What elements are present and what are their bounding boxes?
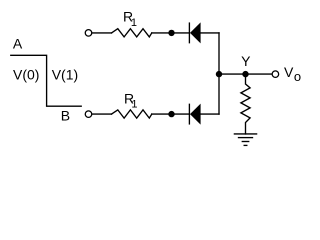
wire bottom resistor to diode	[152, 113, 190, 115]
svg-text:o: o	[294, 69, 301, 84]
svg-text:V(0): V(0)	[13, 67, 39, 83]
wire top diode to bus	[201, 32, 219, 34]
diode D2 cathode bar	[188, 104, 190, 124]
wire bottom input to resistor	[92, 113, 111, 115]
svg-text:1: 1	[131, 17, 137, 29]
wire bus vertical	[218, 33, 220, 114]
terminal circle bottom input	[85, 111, 92, 118]
diode D2 triangle	[190, 104, 201, 125]
diode D1 triangle	[190, 22, 201, 43]
svg-text:V: V	[284, 64, 294, 80]
wire top input to resistor	[92, 32, 111, 34]
svg-text:V(1): V(1)	[52, 67, 78, 83]
input step waveform A/B	[11, 55, 81, 106]
diode D1 cathode bar	[188, 23, 190, 43]
wire bottom diode to bus	[201, 113, 219, 115]
wire top resistor to diode	[152, 32, 190, 34]
svg-text:B: B	[61, 107, 70, 123]
junction dot bus	[216, 71, 222, 77]
ground	[234, 133, 256, 135]
junction dot node Y	[242, 71, 248, 77]
resistor R1 (top)	[112, 29, 152, 37]
junction dot bottom row	[168, 111, 174, 117]
resistor R (output pull-down)	[241, 74, 250, 134]
junction dot top row	[168, 30, 174, 36]
wire node Y row	[219, 73, 272, 75]
svg-text:1: 1	[131, 98, 137, 110]
terminal circle top input	[85, 30, 92, 37]
svg-text:A: A	[13, 36, 23, 52]
resistor R1 (bottom)	[112, 110, 152, 118]
terminal circle output Vo	[272, 71, 279, 78]
svg-text:Y: Y	[241, 53, 251, 69]
